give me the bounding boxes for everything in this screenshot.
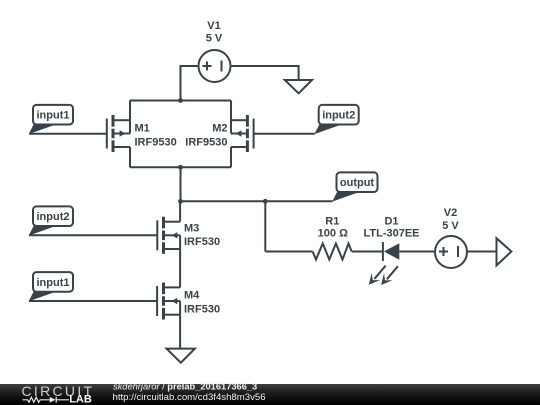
transistor M2 (PMOS IRF9530, mirrored) — [231, 101, 254, 168]
svg-text:output: output — [340, 177, 375, 189]
svg-text:M3: M3 — [184, 222, 199, 234]
node flag output — [332, 172, 377, 201]
svg-text:M4: M4 — [184, 290, 200, 302]
LED D1 (LTL-307EE) — [369, 242, 400, 285]
voltage source V2 — [435, 236, 467, 268]
svg-text:V1: V1 — [207, 20, 220, 32]
wire output branch down — [264, 201, 266, 251]
wire input1 to M4 gate — [29, 300, 157, 302]
node flag input2 (to M2 gate) — [314, 105, 358, 134]
svg-text:input1: input1 — [37, 110, 70, 122]
ground right of V2 (rotated) — [497, 238, 512, 265]
svg-text:IRF9530: IRF9530 — [135, 137, 177, 149]
svg-text:D1: D1 — [384, 215, 398, 227]
transistor M1 (PMOS IRF9530) — [107, 101, 130, 168]
wire V1 right lead to ground — [232, 66, 299, 80]
ground below M4 — [167, 349, 195, 363]
wire M4 source to ground — [179, 315, 181, 349]
wire branch to R1 — [265, 251, 312, 253]
wire input2 to M3 gate — [29, 234, 157, 236]
transistor M3 (NMOS IRF530) — [157, 201, 180, 254]
wire M2 gate to input2 — [254, 133, 315, 135]
junction output branch — [263, 199, 268, 204]
node flag input1 (to M1 gate) — [29, 105, 73, 134]
svg-text:skdehrjaror / prelab_201617366: skdehrjaror / prelab_201617366_3 — [113, 382, 257, 392]
junction output node left — [178, 199, 183, 204]
wire D1 to V2 — [399, 251, 434, 253]
svg-text:LTL-307EE: LTL-307EE — [363, 227, 419, 239]
svg-text:M2: M2 — [212, 123, 227, 135]
transistor M4 (NMOS IRF530) — [157, 283, 180, 320]
svg-text:R1: R1 — [325, 215, 339, 227]
svg-text:LAB: LAB — [69, 394, 92, 405]
svg-text:http://circuitlab.com/cd3f4sh8: http://circuitlab.com/cd3f4sh8m3v56 — [113, 392, 266, 403]
svg-text:100 Ω: 100 Ω — [318, 227, 348, 239]
svg-text:IRF9530: IRF9530 — [185, 137, 227, 149]
svg-text:IRF530: IRF530 — [184, 236, 220, 248]
junction bottom rail — [178, 165, 183, 170]
wire drain rail down to output node — [180, 167, 182, 201]
wire V1 left lead down to PMOS source rail — [181, 66, 198, 101]
ground near V1 — [285, 80, 312, 93]
voltage source V1 — [199, 50, 231, 82]
node flag input1 (to M4 gate) — [29, 272, 73, 301]
svg-text:5 V: 5 V — [442, 220, 459, 232]
svg-text:IRF530: IRF530 — [184, 304, 220, 316]
wire V2 to ground — [468, 251, 497, 253]
svg-text:M1: M1 — [135, 123, 150, 135]
wire top source rail — [130, 100, 231, 102]
svg-text:5 V: 5 V — [206, 33, 223, 45]
junction top rail — [178, 98, 183, 103]
svg-text:V2: V2 — [444, 207, 457, 219]
svg-text:input1: input1 — [37, 277, 70, 289]
wire M3 source to M4 drain — [179, 249, 181, 287]
svg-text:input2: input2 — [37, 211, 70, 223]
CircuitLab footer bar — [0, 382, 540, 405]
resistor R1 — [313, 244, 352, 260]
wire R1 to D1 — [352, 251, 383, 253]
wire input1 to M1 gate — [29, 133, 107, 135]
node flag input2 (to M3 gate) — [29, 206, 73, 235]
wire bottom drain rail — [130, 166, 231, 168]
wire output net horizontal — [181, 200, 333, 202]
svg-text:input2: input2 — [322, 110, 355, 122]
